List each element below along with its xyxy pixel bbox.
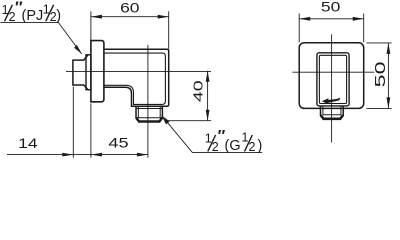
outlet centerline / 45-dim extension (left view) — [147, 45, 149, 158]
leader line PJ1/2 — [1, 22, 82, 54]
outlet chamfer line (front) — [323, 114, 341, 116]
dimension 40: line — [207, 71, 209, 121]
label 1/2"(G1/2) — [205, 128, 263, 154]
dimension 40: arrowheads — [206, 71, 210, 82]
flow direction arrow — [322, 98, 329, 104]
leader G arrowhead — [162, 116, 170, 125]
outlet chamfer line — [136, 117, 162, 119]
svg-text:1: 1 — [205, 131, 212, 145]
elbow body inner edge line (side view) — [104, 53, 165, 104]
arrowhead at 45 right (pointing right) — [137, 153, 148, 157]
outlet thread line right — [159, 106, 161, 118]
washer — [86, 55, 91, 90]
svg-text:2: 2 — [249, 140, 256, 154]
wall flange (front view) — [299, 43, 364, 109]
dimension 40: bottom extension — [166, 120, 212, 122]
dimension 50 right: arrowheads — [387, 43, 391, 54]
svg-text:50: 50 — [321, 0, 341, 15]
dimension 50 top: line — [299, 18, 364, 20]
body square inner (front view) — [319, 55, 346, 103]
svg-text:): ) — [56, 8, 61, 24]
outlet bottom chamfer band — [136, 118, 162, 122]
centerline horizontal (front view) — [292, 71, 374, 73]
svg-text:14: 14 — [18, 136, 38, 151]
wall flange (side view) — [91, 41, 104, 102]
arrowhead at 14 left (outside, pointing right) — [62, 153, 73, 157]
dimension 60: line — [91, 16, 169, 18]
outlet ring line — [136, 108, 162, 110]
centerline horizontal (left view axis) — [66, 71, 211, 73]
dimension 50 right: extension lines — [367, 42, 392, 44]
bottom dimension line (14 / 45) — [7, 154, 148, 156]
outlet thread line left (front) — [322, 106, 324, 115]
svg-text:1: 1 — [242, 131, 249, 145]
body square outer (front view) — [317, 53, 349, 106]
centerline vertical (front view) — [331, 34, 333, 142]
outlet thread line left — [137, 106, 139, 118]
dimension 50 right: line — [387, 43, 389, 109]
svg-text:(PJ: (PJ — [22, 8, 44, 24]
leader line G1/2 — [162, 116, 263, 153]
elbow body outer contour (side view) — [104, 49, 169, 106]
outlet bottom chamfer band (front) — [321, 115, 343, 119]
extension line flange face — [90, 103, 92, 157]
outlet thread line right (front) — [340, 106, 342, 115]
union nut (side view) — [73, 55, 88, 89]
extension line nut face — [72, 87, 74, 158]
arrowhead at shared 14/45 (pointing left) — [91, 153, 102, 157]
svg-text:60: 60 — [120, 1, 140, 16]
svg-text:45: 45 — [108, 135, 128, 151]
dimension 60: extension lines — [90, 11, 92, 40]
label 1/2"(PJ1/2) — [2, 0, 61, 24]
svg-text:(G: (G — [225, 138, 241, 154]
svg-text:40: 40 — [191, 80, 206, 102]
outlet spigot (side view) — [136, 106, 162, 118]
dimension 50 top: arrowheads — [299, 17, 310, 21]
svg-text:): ) — [258, 138, 263, 154]
dimension 60: arrowheads — [91, 15, 102, 19]
dimension 50 top: extension lines — [298, 14, 300, 43]
svg-text:50: 50 — [372, 61, 389, 87]
leader PJ arrowhead — [74, 45, 82, 54]
outlet spigot (front view) — [321, 106, 344, 116]
